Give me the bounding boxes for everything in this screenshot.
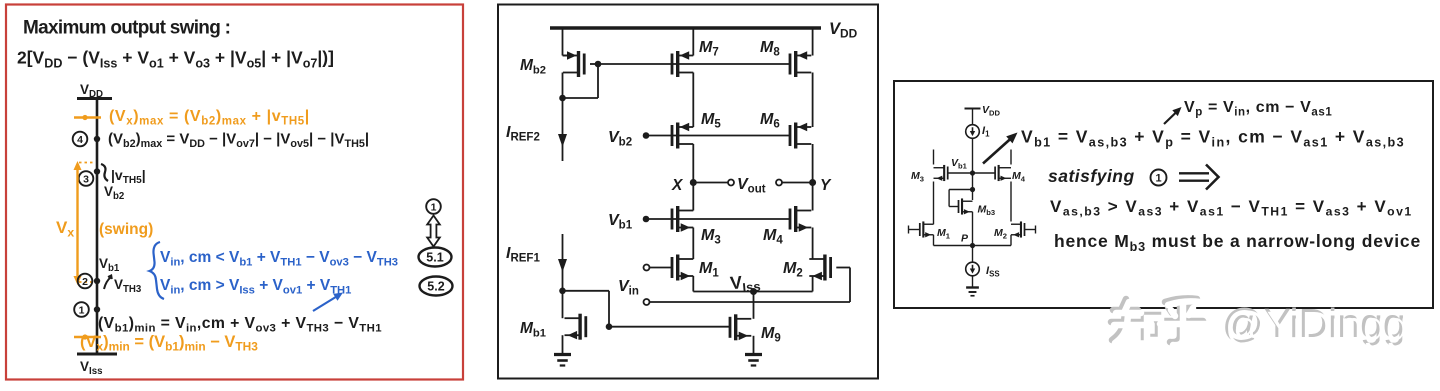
wire M7 drain to M5 source	[692, 73, 694, 128]
wire ISS to ground	[972, 276, 974, 287]
wire Vout terminal to Y	[782, 182, 813, 184]
wire X to Vout terminal	[693, 182, 728, 184]
node Vb1 terminal	[643, 216, 650, 223]
node Mb3 drain junction	[970, 187, 975, 192]
wire Mb1 drain down	[562, 291, 564, 318]
wire P rail	[934, 245, 1012, 247]
wire M2 source to P rail	[1010, 235, 1012, 246]
arrow Vx span (orange, double headed)	[76, 166, 78, 280]
node 2 dot	[94, 278, 100, 284]
node Mb2 drain junction	[559, 95, 566, 102]
node Mb1 drain junction	[559, 288, 566, 295]
svg-text:X: X	[671, 177, 684, 194]
wire M8 drain to M6 source	[812, 73, 814, 128]
wire M3 source to M1 drain	[692, 228, 694, 260]
wire I1 to Vb1 node	[972, 138, 974, 173]
node 3 dot	[94, 168, 100, 174]
svg-text:@YiDingg: @YiDingg	[1225, 303, 1409, 349]
current source ISS	[966, 262, 980, 276]
svg-text:(swing): (swing)	[99, 221, 153, 238]
svg-text:1: 1	[79, 304, 85, 316]
terminal Vout right	[776, 180, 782, 186]
transistor M3 (bias, left)	[947, 166, 949, 179]
svg-text:3: 3	[83, 173, 89, 185]
svg-text:5.1: 5.1	[426, 251, 443, 265]
svg-text:P: P	[961, 233, 969, 245]
node X	[690, 179, 697, 186]
node Mb1 gate junction	[606, 323, 613, 330]
wire M4 source to M2 drain	[812, 228, 814, 260]
panel 1 frame (red)	[6, 5, 463, 380]
wire M3 drain down	[933, 182, 935, 222]
watermark zhihu logo text	[1111, 298, 1203, 342]
wire Mb1 source to ground	[562, 335, 564, 353]
annotation arrow to Vp equation	[1164, 112, 1177, 125]
wire M2 gate stub	[1025, 229, 1036, 231]
wire X to M3 drain	[692, 183, 694, 211]
curl brace at level 3	[101, 164, 108, 181]
wire M4 source stub	[1010, 150, 1012, 165]
node VISS (ladder bottom)	[77, 353, 117, 356]
wire VDD to M7 source	[692, 28, 694, 56]
wire Mb1 diode connection	[563, 290, 610, 292]
wire Vb1 to Mb3	[972, 173, 974, 200]
marker circled 1 (satisfying)	[1151, 170, 1167, 186]
power rail VDD	[550, 26, 821, 29]
marker oval 5.2	[420, 277, 453, 296]
wire M1 drain up	[933, 222, 935, 225]
wire Mb3 diode loop	[949, 189, 972, 191]
double arrow outline	[427, 216, 440, 247]
wire Mb1 gate to M9 gate	[609, 326, 730, 328]
transistor Mb1 (NMOS diode-connected)	[584, 316, 587, 337]
marker circled 2	[78, 274, 93, 289]
wire M2 source to tail	[812, 276, 814, 292]
wire gate bus M7 M8	[598, 63, 790, 65]
wire Y to M4 drain	[812, 183, 814, 211]
wire gate bus M5 M6	[646, 135, 790, 137]
transistor M9 (NMOS tail source)	[729, 317, 732, 338]
ground (bias cell)	[966, 286, 979, 288]
svg-text:hence Mb3 must be a narrow-lon: hence Mb3 must be a narrow-long device	[1054, 231, 1421, 254]
svg-text:2: 2	[82, 276, 88, 288]
svg-text:Vin, cm > VIss + Vov1 + VTH1: Vin, cm > VIss + Vov1 + VTH1	[160, 277, 351, 296]
transistor M4 (NMOS cascode)	[789, 209, 792, 230]
node Vb1 (bias)	[970, 170, 975, 175]
wire M5 drain to node X	[692, 144, 694, 183]
annotation arrow to Vb1 equation	[983, 138, 1012, 164]
wire VDD to I1	[972, 109, 974, 126]
wire diode connection	[597, 64, 599, 98]
wire M1 source to P rail	[933, 235, 935, 246]
wire Mb2 drain down	[562, 73, 564, 99]
transistor M4 (bias, right)	[994, 166, 996, 179]
node 1 dot	[94, 306, 100, 312]
wire tail node	[693, 291, 812, 293]
curl at level 2	[104, 276, 112, 290]
transistor M2 (bias)	[1024, 223, 1026, 236]
wire M6 drain to node Y	[812, 144, 814, 183]
wire gate rail M3 M4	[948, 172, 995, 174]
power VDD bar (bias cell)	[965, 108, 981, 110]
transistor M1 (bias)	[919, 223, 921, 236]
wire IREF2 branch	[562, 98, 564, 161]
panel 2 frame	[498, 5, 878, 379]
marker (Vx)max tick (orange)	[74, 116, 101, 119]
transistor M1 (NMOS input)	[671, 257, 674, 278]
svg-text:1: 1	[1155, 172, 1161, 184]
wire M4 drain down	[1010, 182, 1012, 222]
transistor Mb3 (narrow-long)	[958, 200, 960, 213]
svg-text:Vp = Vin, cm − Vas1: Vp = Vin, cm − Vas1	[1184, 99, 1332, 119]
transistor M2 (NMOS input)	[829, 257, 832, 278]
ground under Mb1	[554, 353, 571, 356]
wire P to ISS	[972, 246, 974, 263]
terminal Vin-	[644, 299, 650, 305]
marker circled 1	[74, 302, 89, 317]
terminal Vout left	[728, 180, 734, 186]
terminal Vin+	[644, 265, 650, 271]
transistor M3 (NMOS cascode)	[671, 209, 674, 230]
panel 3 frame	[894, 81, 1433, 308]
wire Vin- to M2 gate	[650, 301, 851, 303]
wire VDD to M8 source	[812, 28, 814, 56]
wire M3 source stub	[933, 150, 935, 165]
svg-text:Maximum output swing :: Maximum output swing :	[23, 18, 230, 39]
svg-text:satisfying: satisfying	[1048, 166, 1135, 186]
svg-text:5.2: 5.2	[427, 280, 444, 294]
node Mb2 gate junction	[595, 61, 602, 68]
current source IREF2 arrow	[558, 134, 567, 147]
node 4 dot	[94, 136, 100, 142]
transistor M7 (PMOS)	[671, 54, 674, 75]
node VIss (tail)	[750, 288, 757, 295]
wire Mb2 gate to mirror node	[590, 63, 598, 65]
svg-text:Vas,b3 > Vas3 + Vas1 − VTH1 =: Vas,b3 > Vas3 + Vas1 − VTH1 = Vas3 + Vov…	[1050, 197, 1413, 219]
marker circled 1 (reference)	[426, 199, 441, 214]
wire tail to M9 drain	[753, 292, 755, 319]
wire M1 gate stub	[908, 226, 910, 234]
wire M9 source to ground	[753, 336, 755, 353]
transistor M5 (PMOS cascode)	[671, 125, 674, 146]
wire ladder vertical axis	[96, 99, 99, 355]
transistor Mb2 (PMOS diode-connected)	[583, 54, 586, 75]
wire VDD to Mb2 source	[562, 28, 564, 56]
wire Vin+ to M1 gate	[650, 267, 673, 269]
wire Mb3 source down to P	[972, 212, 974, 246]
svg-text:1: 1	[431, 201, 437, 213]
svg-text:2[VDD − (VIss + Vo1 + Vo3 + |V: 2[VDD − (VIss + Vo1 + Vo3 + |Vo5| + |Vo7…	[17, 48, 334, 71]
transistor M8 (PMOS)	[789, 54, 792, 75]
svg-text:Vin, cm < Vb1 + VTH1 − Vov3 −: Vin, cm < Vb1 + VTH1 − Vov3 − VTH3	[160, 249, 398, 268]
node Y	[809, 179, 816, 186]
node Vb2 terminal	[643, 132, 650, 139]
marker circled 3	[79, 171, 94, 186]
blue arrow to condition 5.2	[313, 295, 339, 311]
svg-text:4: 4	[77, 134, 83, 146]
wire M1 source to tail	[692, 276, 694, 292]
brace (blue) for conditions	[150, 242, 165, 299]
marker circled 4	[73, 132, 88, 147]
current source IREF1 wire	[562, 234, 564, 291]
marker oval 5.1	[419, 248, 452, 267]
marker (Vx)min tick (orange)	[74, 336, 101, 339]
node P	[970, 243, 975, 248]
current source I1	[966, 125, 980, 139]
wire gate bus M3 M4	[646, 218, 790, 220]
wire M2 gate lead	[836, 267, 850, 269]
current source IREF1 arrow	[558, 259, 567, 272]
transistor M6 (PMOS cascode)	[789, 125, 792, 146]
arrow implies	[1179, 172, 1209, 174]
svg-text:Y: Y	[820, 177, 832, 194]
ground under M9	[745, 353, 762, 356]
